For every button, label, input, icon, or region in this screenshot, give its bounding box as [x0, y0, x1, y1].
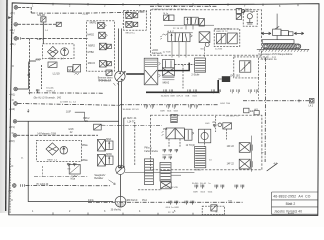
svg-text:22: 22 [70, 132, 73, 134]
svg-text:G3/8 G1/4 G1B: G3/8 G1/4 G1B [160, 111, 178, 113]
wire bus y25 [164, 24, 214, 26]
enclosure E5 [214, 29, 240, 46]
wire M148 drop [42, 22, 44, 44]
svg-text:G1/4: G1/4 [205, 123, 210, 125]
node Bremse loesen [98, 77, 113, 83]
svg-text:14 Fahrantr. G3/8: 14 Fahrantr. G3/8 [37, 132, 56, 135]
svg-text:22 14 22: 22 14 22 [173, 28, 184, 30]
node ACI box [254, 108, 259, 115]
svg-text:A B P: A B P [167, 30, 174, 33]
valve small top [94, 124, 102, 130]
valve tiny top right [236, 9, 254, 15]
svg-text:48D 3G3.0: 48D 3G3.0 [126, 200, 138, 202]
wire P2 line [17, 134, 98, 136]
wire T line [26, 185, 111, 187]
coupling row C [165, 183, 244, 193]
track [263, 44, 301, 49]
svg-text:4/8kw: 4/8kw [81, 159, 88, 162]
cab [273, 29, 281, 35]
svg-text:M1a: M1a [71, 179, 76, 181]
directional valve V9 [162, 128, 185, 139]
wire upper bus high [150, 5, 217, 7]
svg-text:M148: M148 [37, 13, 45, 17]
svg-text:1a 70G: 1a 70G [215, 49, 222, 51]
valve pilot small [106, 70, 112, 75]
svg-text:M .: M . [215, 211, 218, 213]
wire pump ticks [113, 83, 119, 86]
svg-text:L14 TC: L14 TC [127, 120, 135, 123]
pump 1 [61, 48, 69, 61]
svg-text:G3/8 G1/4 G1/4: G3/8 G1/4 G1/4 [193, 191, 213, 193]
wire pilot dashes V5 [175, 65, 195, 89]
svg-text:2-Stufe: 2-Stufe [191, 74, 200, 77]
svg-text:1a: 1a [261, 152, 264, 154]
svg-text:148 •: 148 • [37, 37, 43, 41]
solenoid valve 14F-1 [227, 143, 253, 153]
valve M7B2 [88, 51, 95, 54]
svg-text:3: 3 [104, 5, 106, 8]
wire V1 drops [172, 42, 205, 58]
port P- [10, 6, 18, 16]
striped block V13 [194, 147, 206, 172]
enclosure E7 accumulator [243, 11, 257, 26]
wire mid pilot line [101, 124, 162, 126]
svg-text:3: 3 [104, 210, 106, 213]
svg-text:PG4: PG4 [140, 200, 148, 202]
node Gy Fahrwerk [144, 147, 158, 153]
port BL [10, 37, 18, 46]
wire 1L0 corner [75, 112, 85, 121]
accumulator 2-Stufe [191, 58, 205, 77]
svg-text:M4CO: M4CO [88, 62, 95, 65]
svg-text:G3/8 22 TC: G3/8 22 TC [216, 31, 228, 33]
thick supply line 3 [146, 80, 218, 92]
wire A2 line [18, 104, 120, 106]
svg-text:1L0F: 1L0F [66, 112, 72, 114]
relief valve V10 [184, 129, 194, 140]
svg-text:22 14: 22 14 [168, 212, 175, 214]
node E2 [244, 108, 254, 113]
excavator icon [257, 14, 309, 59]
svg-text:•(A1): •(A1) [9, 93, 15, 97]
solenoid valve M3A2 [81, 138, 113, 151]
svg-text:1a TC/8: 1a TC/8 [163, 51, 172, 53]
svg-text:M6R2: M6R2 [90, 22, 97, 25]
zone numbers top [32, 4, 281, 8]
check valve dark [218, 76, 230, 82]
wire A-riser arrow [27, 109, 29, 112]
small component at B- end [56, 22, 61, 26]
relief valve V3 [199, 32, 210, 47]
svg-text:M5R2: M5R2 [88, 44, 95, 47]
svg-text:2: 2 [69, 210, 71, 213]
svg-text:G1/4 70G: G1/4 70G [220, 103, 230, 105]
wire leader diagonal [267, 162, 278, 171]
wire P1 line [17, 120, 119, 122]
svg-text:14: 14 [209, 160, 212, 162]
enclosure solenoid box E1 [124, 11, 147, 31]
page edge line [6, 0, 7, 211]
svg-text:70G 1a: 70G 1a [245, 9, 253, 11]
wire leak line right [243, 100, 309, 102]
left margin fine ruler [10, 16, 12, 50]
wire drain riser [264, 58, 267, 163]
valve small diag top [199, 18, 204, 26]
svg-text:14F 22: 14F 22 [227, 164, 235, 166]
enclosure small bottom [202, 205, 224, 215]
svg-text:1/2Dt-2-St-7D/1a: 1/2Dt-2-St-7D/1a [215, 28, 232, 31]
striped block column B [160, 162, 171, 181]
svg-text:Behälter: Behälter [94, 177, 103, 180]
node 22 couplings [212, 122, 221, 128]
body [262, 40, 294, 44]
svg-text:Druckb.: Druckb. [46, 87, 54, 90]
svg-text:CL76: CL76 [83, 14, 89, 16]
svg-text:14F 22: 14F 22 [227, 146, 235, 148]
strainer S1 [111, 196, 126, 211]
svg-text:4: 4 [139, 210, 141, 213]
centerfold mark [8, 16, 11, 19]
enclosure travel block lower [151, 115, 262, 170]
wire column links [125, 173, 194, 176]
wire drop to excavator [276, 14, 278, 29]
valve stack M6A2 [162, 60, 174, 85]
striped blocks top [171, 114, 177, 122]
solenoid valve M3W2 [81, 153, 113, 166]
svg-text:P9B: P9B [163, 129, 168, 131]
svg-text:Fahrwerk: Fahrwerk [152, 52, 163, 55]
svg-text:1: 1 [32, 4, 34, 7]
restrictor V8 [239, 61, 250, 72]
svg-text:JS Drehantr. 1a: JS Drehantr. 1a [260, 58, 277, 61]
coupling row D [166, 201, 194, 209]
thick supply line 1 [126, 73, 144, 75]
svg-text:Blatt 2: Blatt 2 [286, 202, 296, 206]
valve small pair top [163, 13, 174, 20]
svg-text:1.4: 1.4 [61, 58, 65, 61]
wire E8 internal dash [215, 116, 217, 132]
svg-text:G1/4: G1/4 [200, 49, 206, 51]
thick supply line 2 [158, 63, 189, 71]
filter F1 [48, 46, 59, 60]
node Chassis label [258, 53, 293, 59]
svg-text:G3/8: G3/8 [68, 129, 74, 131]
svg-text:22 M2O 22 14 G3/8 1a 22 70: 22 M2O 22 14 G3/8 1a 22 70G 1a [152, 9, 188, 11]
node P98.2 [83, 117, 90, 123]
svg-text:L1/10: L1/10 [53, 72, 60, 76]
wire leak end symbol [309, 98, 314, 107]
pump 3 [60, 147, 68, 155]
svg-text:M: M [68, 68, 71, 72]
svg-text:40k0: 40k0 [35, 60, 41, 62]
svg-text:4.0: 4.0 [274, 162, 278, 166]
wire dashed return [138, 189, 162, 191]
svg-text:36: 36 [85, 120, 88, 123]
zone numbers bottom [32, 210, 176, 213]
solenoid valve 14F-2 [227, 159, 253, 169]
brake valve V11 [186, 129, 211, 147]
port P2 [9, 134, 17, 144]
svg-text:4: 4 [139, 5, 141, 8]
svg-text:•(A2): •(A2) [9, 107, 15, 111]
svg-text:M4C0: M4C0 [87, 33, 94, 36]
port B- [10, 23, 18, 33]
node M1 box [69, 164, 80, 180]
coupling row B [123, 105, 198, 113]
coupling row E [162, 149, 178, 159]
svg-text:(5te AL-) 2-St-umsch. 14G: (5te AL-) 2-St-umsch. 14G [34, 97, 62, 100]
svg-text:44/4x: 44/4x [88, 200, 94, 202]
enclosure pump station 1 [43, 44, 75, 59]
valve M148 [37, 13, 46, 22]
svg-text:G1/4 G3/8: G1/4 G3/8 [162, 155, 172, 157]
svg-text:•(BL): •(BL) [10, 42, 16, 46]
valve tiny top right b [236, 15, 241, 20]
fitting at port BL [19, 37, 21, 39]
motor symbol E6 [0, 0, 1, 1]
svg-text:22 G3/8 1a 14: 22 G3/8 1a 14 [60, 102, 76, 104]
svg-text:4/8kw: 4/8kw [81, 144, 88, 147]
svg-text:-14 2D-4 TC: -14 2D-4 TC [225, 115, 239, 117]
svg-text:8: 8 [279, 5, 281, 8]
arrow left [261, 32, 271, 35]
svg-text:•(P2): •(P2) [9, 139, 15, 143]
svg-text:12 TO(2): 12 TO(2) [186, 145, 195, 147]
frame tick marks top [53, 3, 298, 6]
wire LS line [29, 92, 105, 94]
wire pilot dashes V9 [169, 129, 227, 148]
svg-text:M7B2: M7B2 [88, 51, 95, 54]
enclosure travel block upper [151, 10, 262, 55]
port symbols small left [36, 87, 56, 93]
motor 2 circle [116, 165, 125, 174]
solenoid valve M6R2 [90, 22, 107, 29]
svg-text:•(P1): •(P1) [9, 125, 15, 129]
solenoid valve M5R2 [88, 43, 111, 50]
wire 14F riser [251, 136, 253, 172]
port P1 [9, 120, 17, 130]
filter F2 [46, 143, 59, 155]
svg-text:1.4: 1.4 [45, 30, 49, 32]
node +DCK Fahrwerk upper [152, 49, 163, 55]
wire A1 riser [28, 58, 43, 89]
wire strainer stem [120, 175, 122, 197]
svg-text:L4.2: L4.2 [309, 105, 314, 107]
valve small X [161, 182, 172, 189]
wire A1 line [18, 88, 29, 90]
svg-text:5: 5 [174, 210, 176, 213]
wire B- line [18, 23, 56, 25]
wire E6 drain dash [258, 78, 260, 100]
svg-text:•(T): •(T) [8, 189, 12, 193]
svg-text:30-300Ll 1/2 1/4: 30-300Ll 1/2 1/4 [123, 109, 140, 111]
solenoid valve M4C0 [87, 32, 107, 38]
valve V4a [216, 34, 226, 44]
valve with motor M [68, 64, 81, 74]
node G3/8 22 [68, 129, 74, 134]
accumulator A1 [247, 14, 253, 24]
valve bank V1 [160, 30, 193, 42]
svg-text:50kPa -2: 50kPa -2 [46, 90, 56, 92]
frame tick marks left [11, 33, 14, 200]
port A1 [9, 87, 17, 96]
enclosure E6 [234, 57, 259, 78]
scanner edge shadow [0, 0, 12, 213]
svg-text:1: 1 [32, 210, 34, 213]
wire BL riser dashed [29, 38, 31, 94]
svg-text:78kW: 78kW [49, 58, 56, 61]
valve small right [223, 123, 232, 129]
arrow right [294, 32, 304, 35]
wire P- stub [18, 7, 31, 13]
svg-text:G3/8x2: G3/8x2 [194, 169, 202, 171]
fitting at port T [21, 184, 25, 187]
svg-text:2L: 2L [21, 158, 24, 160]
travel control valve V6 [144, 58, 160, 85]
wire drop to tank row [134, 122, 136, 166]
wire BL line [22, 37, 89, 39]
node Saugkorb label [94, 174, 115, 185]
valve 78kW aux [35, 60, 57, 68]
port A2 [9, 102, 17, 112]
svg-text:M3A: M3A [106, 138, 111, 141]
svg-text:E2: E2 [250, 109, 254, 113]
svg-text:D4V 10/2: D4V 10/2 [231, 76, 241, 78]
wire leak junction tick [297, 99, 300, 102]
svg-text:7: 7 [244, 5, 246, 8]
svg-text:30-300/2 G3/8 10F+G G1B: 30-300/2 G3/8 10F+G G1B G1/4 [161, 96, 198, 98]
port T [8, 184, 16, 194]
striped block V14 [144, 159, 153, 185]
svg-text:•(B-): •(B-) [10, 28, 15, 32]
svg-text:30 (4m³/s): 30 (4m³/s) [111, 209, 122, 212]
svg-text:M6A2: M6A2 [163, 81, 170, 84]
node pump labels [21, 158, 58, 162]
svg-text:78kW 1.4: 78kW 1.4 [47, 159, 58, 161]
enclosure pump station 2 [37, 140, 82, 161]
svg-text:2: 2 [69, 5, 71, 8]
wire pump risers [119, 29, 124, 169]
node M1 small [67, 163, 76, 171]
pump 2 variable [115, 71, 126, 81]
svg-text:(T) G3/4 40: (T) G3/4 40 [36, 183, 49, 186]
title block frame [272, 192, 319, 214]
svg-text:Unterwagen JS70 Raupenfahrw.: Unterwagen JS70 Raupenfahrw. [258, 53, 293, 56]
frame tick marks bottom [53, 212, 193, 215]
solenoid valve M9 [126, 11, 143, 27]
svg-text:46-8832-2952 A4 CO: 46-8832-2952 A4 CO [273, 194, 311, 198]
valve V4b [228, 33, 238, 44]
svg-text:•(P-): •(P-) [10, 11, 15, 15]
solenoid valve M8 [126, 11, 138, 18]
svg-text:31.190: 31.190 [122, 24, 129, 26]
node tank line labels [88, 200, 147, 202]
svg-text:G1/4 1a G3/8: G1/4 1a G3/8 [166, 207, 180, 209]
wire upper bus low [31, 12, 148, 13]
svg-text:M3W: M3W [106, 153, 112, 156]
svg-text:Fahrantriebs: Fahrantriebs [144, 150, 158, 153]
title text row 3 [274, 209, 302, 215]
coupling row A [161, 89, 258, 97]
solenoid valve M4CO [88, 60, 112, 67]
svg-text:22: 22 [212, 122, 215, 124]
svg-text:M8 22 1a: M8 22 1a [126, 32, 136, 34]
svg-text:Verstellp. 1.4: Verstellp. 1.4 [98, 79, 112, 82]
enclosure solenoid column [87, 21, 115, 71]
wire dash return left [34, 166, 88, 177]
wire measuring line [120, 104, 218, 106]
ground line hatched [257, 49, 309, 52]
node header 44 M2O [123, 117, 137, 123]
svg-text:30-300 (2x) 41 1a: 30-300 (2x) 41 1a [192, 183, 211, 185]
wire tank return line [88, 201, 243, 203]
svg-text:1a TC/8 1/2D: 1a TC/8 1/2D [165, 187, 178, 189]
valve cells mid top [184, 17, 198, 29]
svg-text:Amtale: Amtale [288, 212, 294, 215]
svg-text:70G: 70G [228, 200, 232, 202]
wire P1 riser to tank [28, 121, 113, 201]
